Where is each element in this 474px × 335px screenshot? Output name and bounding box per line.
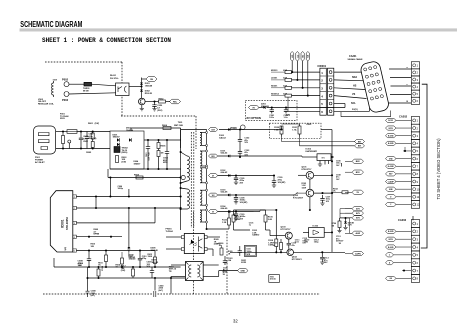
wire header drop 1: [291, 61, 293, 72]
net flag CLAMP at CA202 pin 9: [386, 179, 397, 183]
svg-text:ALW: ALW: [355, 232, 360, 235]
net flag 8V input: [249, 105, 260, 109]
wire IC001 pin4: [76, 236, 122, 238]
svg-text:6.2V: 6.2V: [348, 225, 353, 227]
svg-text:CW201: CW201: [317, 64, 326, 68]
wire header drop 4: [307, 61, 309, 96]
capacitor C201: [271, 106, 273, 108]
svg-text:IC001: IC001: [61, 219, 65, 228]
connector P003: [64, 92, 69, 97]
wire row 8V to circuits: [321, 129, 332, 131]
connector CA202 pin 5: [411, 147, 419, 155]
wire PH001 anode: [166, 236, 182, 238]
net flag D at CA203 pin 6: [386, 261, 394, 265]
transistor Q103: [285, 232, 292, 239]
svg-text:1.2A: 1.2A: [274, 129, 279, 132]
svg-text:B+GND: B+GND: [388, 166, 395, 168]
svg-text:DS-12V-L: DS-12V-L: [110, 78, 120, 80]
posistor TH002: [114, 147, 120, 153]
svg-text:(1W): (1W): [95, 123, 100, 125]
svg-text:B-GND: B-GND: [388, 247, 394, 249]
diode D210: [344, 222, 347, 224]
capacitor C008: [88, 251, 90, 259]
svg-text:P002: P002: [62, 78, 69, 82]
wire 8V option to CN201 pin5: [297, 107, 345, 109]
net flag B-GND at CA203 pin 4: [386, 245, 397, 249]
svg-text:LD301: LD301: [271, 78, 278, 80]
svg-text:R004: R004: [162, 124, 168, 127]
net flag B9V: [209, 154, 218, 158]
net flag header vertical SDA: [306, 52, 309, 62]
regulator option dashed box: [269, 123, 321, 138]
diode D003: [117, 143, 119, 146]
svg-text:250V: 250V: [83, 141, 88, 143]
svg-text:1N4007: 1N4007: [134, 162, 141, 165]
svg-text:5(R): 5(R): [65, 247, 67, 251]
net flag REL: [170, 99, 181, 104]
net flag D at CA202 pin 11: [386, 195, 397, 199]
thermistor THR01: [84, 82, 92, 86]
resistor R120: [280, 126, 283, 134]
junction C050 node: [153, 100, 155, 102]
transformer T001 top rail: [181, 129, 207, 131]
svg-text:680u 400V: 680u 400V: [147, 153, 150, 162]
capacitor C032: [239, 246, 241, 251]
capacitor C105: [235, 174, 237, 176]
svg-text:P003: P003: [62, 98, 69, 102]
net flag B+GND at CA202 pin 7: [386, 164, 397, 168]
resistor R112: [232, 215, 235, 222]
wire bridge top rail: [131, 127, 181, 129]
connector CA203 pin 8: [411, 274, 419, 282]
capacitor C050: [154, 102, 156, 105]
wire header drop 3: [302, 61, 304, 88]
chassis dashed riser: [226, 231, 228, 294]
diode D104: [228, 210, 230, 213]
wire IC001 ground rail: [54, 266, 181, 268]
svg-text:150K: 150K: [148, 256, 153, 258]
terminal P00B: [181, 175, 185, 179]
resistor R014: [121, 258, 124, 264]
connector CA202 pin 10: [411, 185, 419, 193]
wire pin2 drop: [128, 208, 130, 243]
net flag GND: [238, 268, 249, 272]
capacitor C049: [154, 291, 156, 297]
net flag C at CA202 pin 12: [386, 202, 397, 206]
connector CA200 pin 2: [411, 69, 419, 76]
svg-text:CA202: CA202: [399, 115, 408, 119]
connector P001 AC inlet: [34, 126, 56, 154]
connector CA202 pin 8: [411, 170, 419, 178]
connector CA202 pin 7: [411, 162, 419, 170]
capacitor C007: [151, 267, 153, 270]
wire Q104 base row: [230, 251, 287, 253]
wire CA203 pin1 riser: [412, 216, 414, 220]
svg-text:SDA: SDA: [352, 76, 357, 79]
net flag ON: [146, 77, 157, 82]
diode D102: [228, 174, 230, 177]
wire CA201 to CA200 pin b: [390, 77, 411, 79]
wire lower return rail: [88, 277, 186, 279]
net flag 4V: [209, 174, 218, 178]
svg-text:(1W): (1W): [121, 270, 126, 272]
svg-text:KD301: KD301: [271, 70, 278, 72]
wire THR01 to RL001: [92, 84, 116, 86]
wire P003 to RL001: [69, 93, 116, 94]
connector CA202 pin 11: [411, 193, 419, 201]
net flag 9V: [352, 190, 364, 194]
net flag 9VS: [352, 216, 364, 220]
regulator IC001: [50, 191, 73, 252]
svg-text:CAFN: CAFN: [355, 252, 361, 255]
wire secondary bus: [206, 130, 208, 230]
svg-text:RD6.2E: RD6.2E: [145, 93, 153, 95]
net flag B8V: [355, 139, 365, 143]
connector CA200 pin 3: [411, 76, 419, 83]
wire Q101 emitter rail: [314, 174, 332, 176]
varistor V001: [62, 136, 65, 144]
diode D051: [140, 83, 143, 85]
svg-text:P008: P008: [231, 126, 238, 130]
net flag 9V: [209, 210, 218, 214]
wire regulator output bus: [331, 141, 333, 253]
wire header drop 2: [296, 61, 298, 80]
svg-text:5VS: 5VS: [356, 209, 361, 211]
wire PH001 collector: [207, 236, 220, 238]
capacitor C002: [86, 132, 88, 137]
wire fuse to bridge: [77, 131, 110, 133]
wire T002 right pin lower: [203, 276, 219, 278]
wire Q001 base to R052: [145, 101, 158, 103]
wire feedback vertical: [275, 210, 277, 239]
svg-text:1000p: 1000p: [118, 188, 124, 190]
svg-text:1N4004: 1N4004: [126, 129, 134, 132]
primary section dashed boundary right: [121, 62, 123, 116]
resistor R012: [97, 269, 100, 276]
diode D007: [127, 247, 130, 249]
wire feedback row: [234, 209, 266, 211]
diode D002: [129, 138, 131, 141]
svg-text:1KV: 1KV: [78, 265, 83, 267]
boxed label V001: [269, 275, 280, 283]
svg-text:10V: 10V: [240, 219, 244, 221]
svg-text:KTC3206Y: KTC3206Y: [292, 259, 303, 261]
svg-text:(1W): (1W): [122, 161, 127, 163]
connector CA202 pin 4: [411, 140, 419, 148]
transistor Q102: [306, 189, 314, 197]
svg-text:250V: 250V: [60, 118, 65, 120]
net flag B8V: [352, 159, 364, 163]
svg-text:1N4148: 1N4148: [145, 85, 153, 88]
svg-text:IN 5M: IN 5M: [83, 91, 89, 93]
svg-text:SIGNAL CABLE: SIGNAL CABLE: [348, 58, 364, 61]
svg-text:1.5K: 1.5K: [222, 222, 227, 224]
connector CA202 pin 3: [411, 132, 419, 140]
svg-text:1N4007: 1N4007: [113, 136, 121, 139]
svg-text:T001: T001: [178, 122, 184, 124]
svg-text:CA201: CA201: [349, 55, 357, 58]
wire CN201 HS: [334, 79, 365, 82]
8V option dashed box: [245, 101, 297, 121]
svg-text:10K: 10K: [91, 246, 95, 248]
svg-text:SMT-16B: SMT-16B: [174, 125, 183, 127]
primary section dashed boundary bottom: [121, 115, 196, 117]
wire CA201 to CA200 pin a: [389, 68, 411, 70]
svg-text:SD301: SD301: [271, 86, 278, 88]
svg-text:B8V: B8V: [356, 161, 361, 163]
transistor Q101: [306, 172, 314, 180]
capacitor C110: [288, 239, 290, 243]
net flag 16V: [209, 193, 218, 197]
wire PH001 cathode: [166, 248, 182, 250]
svg-text:TLP624: TLP624: [166, 230, 174, 233]
svg-text:B-GND: B-GND: [388, 231, 394, 233]
svg-text:IC103: IC103: [313, 225, 319, 227]
svg-text:32: 32: [233, 319, 238, 324]
resistor R005: [157, 139, 159, 141]
svg-text:R052: R052: [159, 98, 165, 100]
svg-text:CLAMP: CLAMP: [388, 180, 395, 183]
net flag B5V: [355, 144, 365, 148]
net flag B-GND at CA203 pin 2: [386, 229, 397, 233]
wire CN201 SDA: [334, 71, 366, 73]
connector CA203 pin 5: [411, 251, 419, 259]
wire CN201 5V: [334, 110, 370, 112]
relay RL001: [116, 83, 129, 96]
resistor R003: [116, 156, 119, 163]
resistor R052: [159, 100, 166, 103]
svg-text:(DEG): (DEG): [122, 152, 128, 154]
svg-text:B5V: B5V: [356, 172, 361, 174]
wire T002 output: [219, 270, 238, 272]
svg-text:(AC): (AC): [159, 289, 164, 292]
capacitor C030: [224, 256, 226, 261]
resistor R013: [154, 257, 157, 264]
connector CA202 pin 12: [411, 201, 419, 209]
wire row 160V: [219, 129, 269, 131]
svg-text:MPR: MPR: [163, 162, 168, 164]
transistor Q001: [139, 98, 146, 105]
svg-text:KD: KD: [292, 54, 294, 58]
fuse F001: [67, 130, 77, 134]
svg-text:B-GND: B-GND: [388, 143, 394, 145]
wire IC001 pin5: [76, 250, 155, 252]
net flag 5VS: [352, 207, 364, 211]
wire aux bottom row: [207, 228, 229, 230]
svg-text:DC10A: DC10A: [270, 278, 276, 281]
wire B+ rail: [144, 139, 181, 141]
wire row 16V extension: [254, 194, 295, 196]
IC001 pin 5: [73, 249, 77, 252]
isolation dashed boundary mid: [193, 212, 195, 261]
svg-text:5(X): 5(X): [286, 115, 290, 117]
capacitor C001: [80, 132, 82, 138]
isolation dashed boundary drop: [195, 116, 197, 149]
capacitor C109: [273, 176, 275, 181]
svg-text:50: 50: [336, 241, 338, 243]
svg-text:GAL6Z: GAL6Z: [221, 171, 228, 174]
capacitor C005: [147, 139, 149, 141]
svg-text:CA203: CA203: [398, 218, 407, 222]
diode D100: [228, 128, 230, 131]
net flag B9V at CA202 pin 8: [386, 172, 397, 176]
header underline bar: [20, 28, 458, 31]
net flag C at CA203 pin 5: [386, 253, 394, 257]
wire P002 to THR01: [69, 83, 84, 85]
wire T002 riser to chassis: [170, 277, 172, 294]
connector CA203 pin 3: [411, 235, 419, 243]
wire CA201 to CA200 pin c: [391, 85, 412, 87]
svg-text:MA165: MA165: [129, 256, 136, 259]
capacitor C102: [239, 128, 241, 130]
wire riser to primary return: [109, 178, 111, 197]
svg-text:1/2W: 1/2W: [302, 187, 307, 189]
svg-text:GAL6Z: GAL6Z: [221, 152, 228, 155]
connector CA203 pin 7: [411, 267, 419, 275]
wire secondary row 9V: [218, 211, 254, 213]
capacitor C004: [166, 139, 168, 141]
terminal P008: [241, 125, 246, 130]
svg-text:SCL: SCL: [351, 102, 356, 105]
boxed label C031: [244, 246, 256, 257]
net flag GND at CA202 pin 6: [386, 157, 397, 161]
bracket to sheet 4: [421, 84, 427, 248]
svg-text:16V: 16V: [244, 142, 248, 144]
svg-text:100p: 100p: [314, 242, 319, 244]
connector CA200 pin 5: [411, 90, 419, 97]
primary section dashed boundary top: [45, 61, 122, 63]
svg-text:12: 12: [417, 203, 420, 207]
capacitor C006: [128, 189, 130, 197]
IC001 pin 4: [73, 235, 77, 238]
svg-text:50V: 50V: [147, 266, 151, 268]
diode D001: [117, 138, 119, 141]
net flag header vertical LD: [296, 52, 299, 62]
wire bridge bottom rail: [110, 168, 181, 170]
ground at Q001 emitter: [141, 105, 143, 109]
svg-text:1.5K: 1.5K: [236, 219, 241, 221]
capacitor C107: [322, 195, 324, 198]
resistor R123: [228, 218, 231, 225]
wire IC001 pin2: [76, 207, 180, 209]
svg-text:REGULAR COIL: REGULAR COIL: [38, 103, 55, 106]
svg-text:TO SHEET 4 (VIDEO SECTION): TO SHEET 4 (VIDEO SECTION): [436, 138, 441, 200]
net flag B15V at CA203 pin 3: [386, 237, 397, 241]
wire row 9V extension: [254, 211, 261, 213]
svg-text:8VS: 8VS: [356, 213, 361, 215]
net flag B5V: [352, 170, 364, 174]
connector CA202 pin 9: [411, 178, 419, 186]
wire secondary row 4V: [218, 175, 254, 177]
connector CA203 pin 2: [411, 227, 419, 235]
capacitor C103: [239, 146, 241, 151]
wire row B9V extension: [254, 155, 303, 157]
svg-text:8V OPTION: 8V OPTION: [247, 116, 261, 120]
resistor R113: [280, 243, 283, 250]
earth ground E001: [68, 143, 70, 149]
resistor R121: [298, 126, 301, 134]
wire to net B8V: [281, 137, 283, 142]
wire T002 right pin upper: [203, 264, 219, 266]
svg-text:NFRM: NFRM: [94, 234, 100, 236]
svg-text:KIA78R08PI: KIA78R08PI: [306, 150, 318, 153]
resistor R004: [163, 127, 171, 130]
resistor R002: [91, 142, 94, 148]
svg-text:KTX1271Y: KTX1271Y: [281, 229, 292, 231]
capacitor C010: [139, 251, 141, 259]
transformer T001 secondary windings: [200, 132, 202, 145]
svg-text:1.7A: 1.7A: [292, 129, 297, 132]
svg-text:SD301A: SD301A: [271, 92, 279, 95]
wire relay node vertical: [141, 78, 143, 99]
capacitor C113: [321, 252, 323, 257]
svg-text:LD: LD: [297, 54, 299, 57]
junction relay node: [140, 85, 142, 87]
wire CA201 to CA200 pin d: [390, 94, 411, 96]
wire C049 riser: [154, 278, 156, 291]
net flag B15V at CA202 pin 2: [386, 126, 397, 130]
wire row 4V extension: [254, 175, 275, 177]
connector CA200 pin 6: [411, 97, 419, 104]
wire riser x96: [95, 197, 97, 209]
svg-text:9VS: 9VS: [356, 218, 361, 220]
net flag header vertical KD: [291, 52, 294, 62]
isolation dashed boundary lower: [193, 281, 195, 294]
wire IC001 pin3: [76, 222, 155, 224]
net flag B-GND at CA202 pin 4: [386, 141, 397, 145]
resistor R008: [136, 176, 143, 179]
svg-text:R001: R001: [88, 123, 94, 125]
svg-text:5.6K: 5.6K: [268, 219, 273, 221]
capacitor C048: [87, 278, 89, 291]
svg-text:VS: VS: [352, 93, 356, 96]
chassis dashed line left: [43, 293, 153, 295]
connector CA202 pin 2: [411, 124, 419, 132]
svg-text:25V: 25V: [240, 183, 244, 185]
svg-text:16V(NP): 16V(NP): [278, 182, 286, 184]
resistor R011: [105, 255, 108, 262]
wire riser x155: [154, 208, 156, 223]
wire inlet neutral: [56, 148, 110, 150]
svg-text:16V(NP): 16V(NP): [240, 202, 248, 204]
capacitor C108: [235, 194, 237, 196]
svg-text:1N4148: 1N4148: [151, 249, 159, 252]
svg-text:KTC3206Y: KTC3206Y: [293, 197, 304, 199]
net flag B-GND at CA202 pin 3: [386, 134, 397, 138]
svg-text:250V(M): 250V(M): [89, 138, 97, 140]
transformer T001 primary winding: [181, 152, 187, 156]
IC001 pin 1: [73, 195, 77, 198]
wire to 5VS 8VS flags: [340, 208, 352, 210]
diode D201: [259, 107, 264, 109]
resistor R108: [275, 239, 278, 247]
IC001 pin 2: [73, 206, 77, 209]
wire CN201 SCL: [334, 96, 367, 99]
net flag B-15V at CA202 pin 1: [386, 118, 397, 122]
connector CA200 pin 1: [411, 62, 419, 69]
wire option box feed: [269, 129, 281, 131]
IC001 pin 3: [73, 221, 77, 224]
wire inlet live: [56, 131, 67, 133]
wire 5V bracket under D-sub: [340, 112, 342, 117]
svg-text:R008: R008: [134, 174, 140, 176]
wire RL001 to node: [129, 86, 142, 88]
capacitor C120: [235, 210, 237, 212]
connector P002: [64, 82, 69, 87]
net flag CAFN: [352, 251, 364, 255]
svg-text:(AC): (AC): [91, 294, 96, 297]
svg-text:10: 10: [417, 187, 420, 191]
